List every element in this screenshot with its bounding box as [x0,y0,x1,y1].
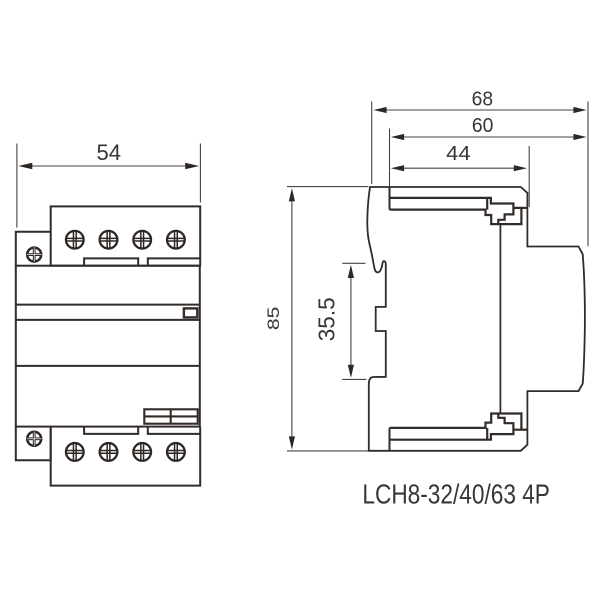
side view: bottom castle channel vertical [486,428,488,440]
dimension 44 arrows [391,165,404,171]
side view: bottom inner left vertical [389,428,391,451]
front view: label table 2x2 [144,409,197,423]
dimension 68/60 extension right [587,102,589,247]
front view: bottom tab left [84,427,138,434]
front view: inner horizontal line 2 [16,319,200,321]
svg-text:LCH8-32/40/63 4P: LCH8-32/40/63 4P [362,479,550,510]
dimension 35.5 extension top [342,262,365,264]
screw terminal top 2 [99,230,118,249]
dimension 60 extension left [389,129,391,187]
screw terminal bottom 1 [65,442,84,461]
side view [367,187,585,451]
front view: bottom tab right [148,427,200,434]
dimension 35.5 extension bottom [342,378,366,380]
dimension 85 arrows [289,188,295,201]
front view: bottom-left small block [16,427,51,461]
front view: dimension 54 extension line right [199,144,201,203]
dimension 35.5 line [350,276,352,366]
front view: indicator window [184,308,197,317]
front view: bottom terminal block [51,427,201,486]
front view: top terminal block [51,206,201,265]
front view: dimension 54 line [30,165,188,167]
dimension 35.5 arrows [348,265,354,278]
screw terminal top 3 [133,230,152,249]
screw terminal top 1 [65,230,84,249]
side view: top inner line 1 with castle steps [390,198,514,224]
screw terminal bottom 3 [133,442,152,461]
screw terminal bottom 4 [166,442,185,461]
side view: outer profile [367,187,585,451]
dimension 68 arrows [373,107,386,113]
svg-text:35.5: 35.5 [313,297,339,341]
small screw top-left [27,247,42,262]
front view: top-left small block [16,232,51,266]
front view: dimension 54 extension line left [16,144,18,228]
front view: dimension 54 arrow left [18,163,32,169]
side view: top inner left vertical [389,187,391,210]
front view: inner horizontal line 3 [16,365,200,367]
dimensions of side view [287,102,588,451]
screw terminal bottom 2 [99,442,118,461]
dimension 85 line [291,200,293,438]
side view: top castle channel vertical [486,198,488,210]
side view: bottom castle connector to right edge [521,429,527,431]
side view: top inner line 2 with castle steps [390,208,522,224]
front view: screws [27,230,186,462]
front view: main body outline [16,266,200,427]
screw terminal top 4 [166,230,185,249]
dimension 68 line [385,109,575,111]
svg-text:44: 44 [446,142,470,165]
front view: inner horizontal line 1 [16,304,200,306]
front view: top tab right [148,258,200,265]
dimension 68 extension left [371,102,373,185]
side view: center vertical line [499,224,501,413]
svg-text:54: 54 [96,140,120,165]
svg-text:85: 85 [265,307,283,331]
dimension 60 line [404,136,575,138]
dimension 44 line [404,167,516,169]
front view: dimension 54 arrow right [185,163,199,169]
dimension 60 arrows [391,134,404,140]
svg-text:68: 68 [472,87,494,110]
small screw bottom-left [27,431,42,446]
side view: bottom inner line 2 with castle steps [390,414,522,430]
dimension 85 extension bottom [287,450,369,452]
front view: top tab left [84,258,138,265]
dimension 85 extension top [287,186,369,188]
svg-text:60: 60 [472,114,494,137]
side view: top castle connector to right edge [521,207,527,209]
dimension 44 extension right [528,146,530,207]
side view: bottom inner line 1 with castle steps [390,414,514,440]
